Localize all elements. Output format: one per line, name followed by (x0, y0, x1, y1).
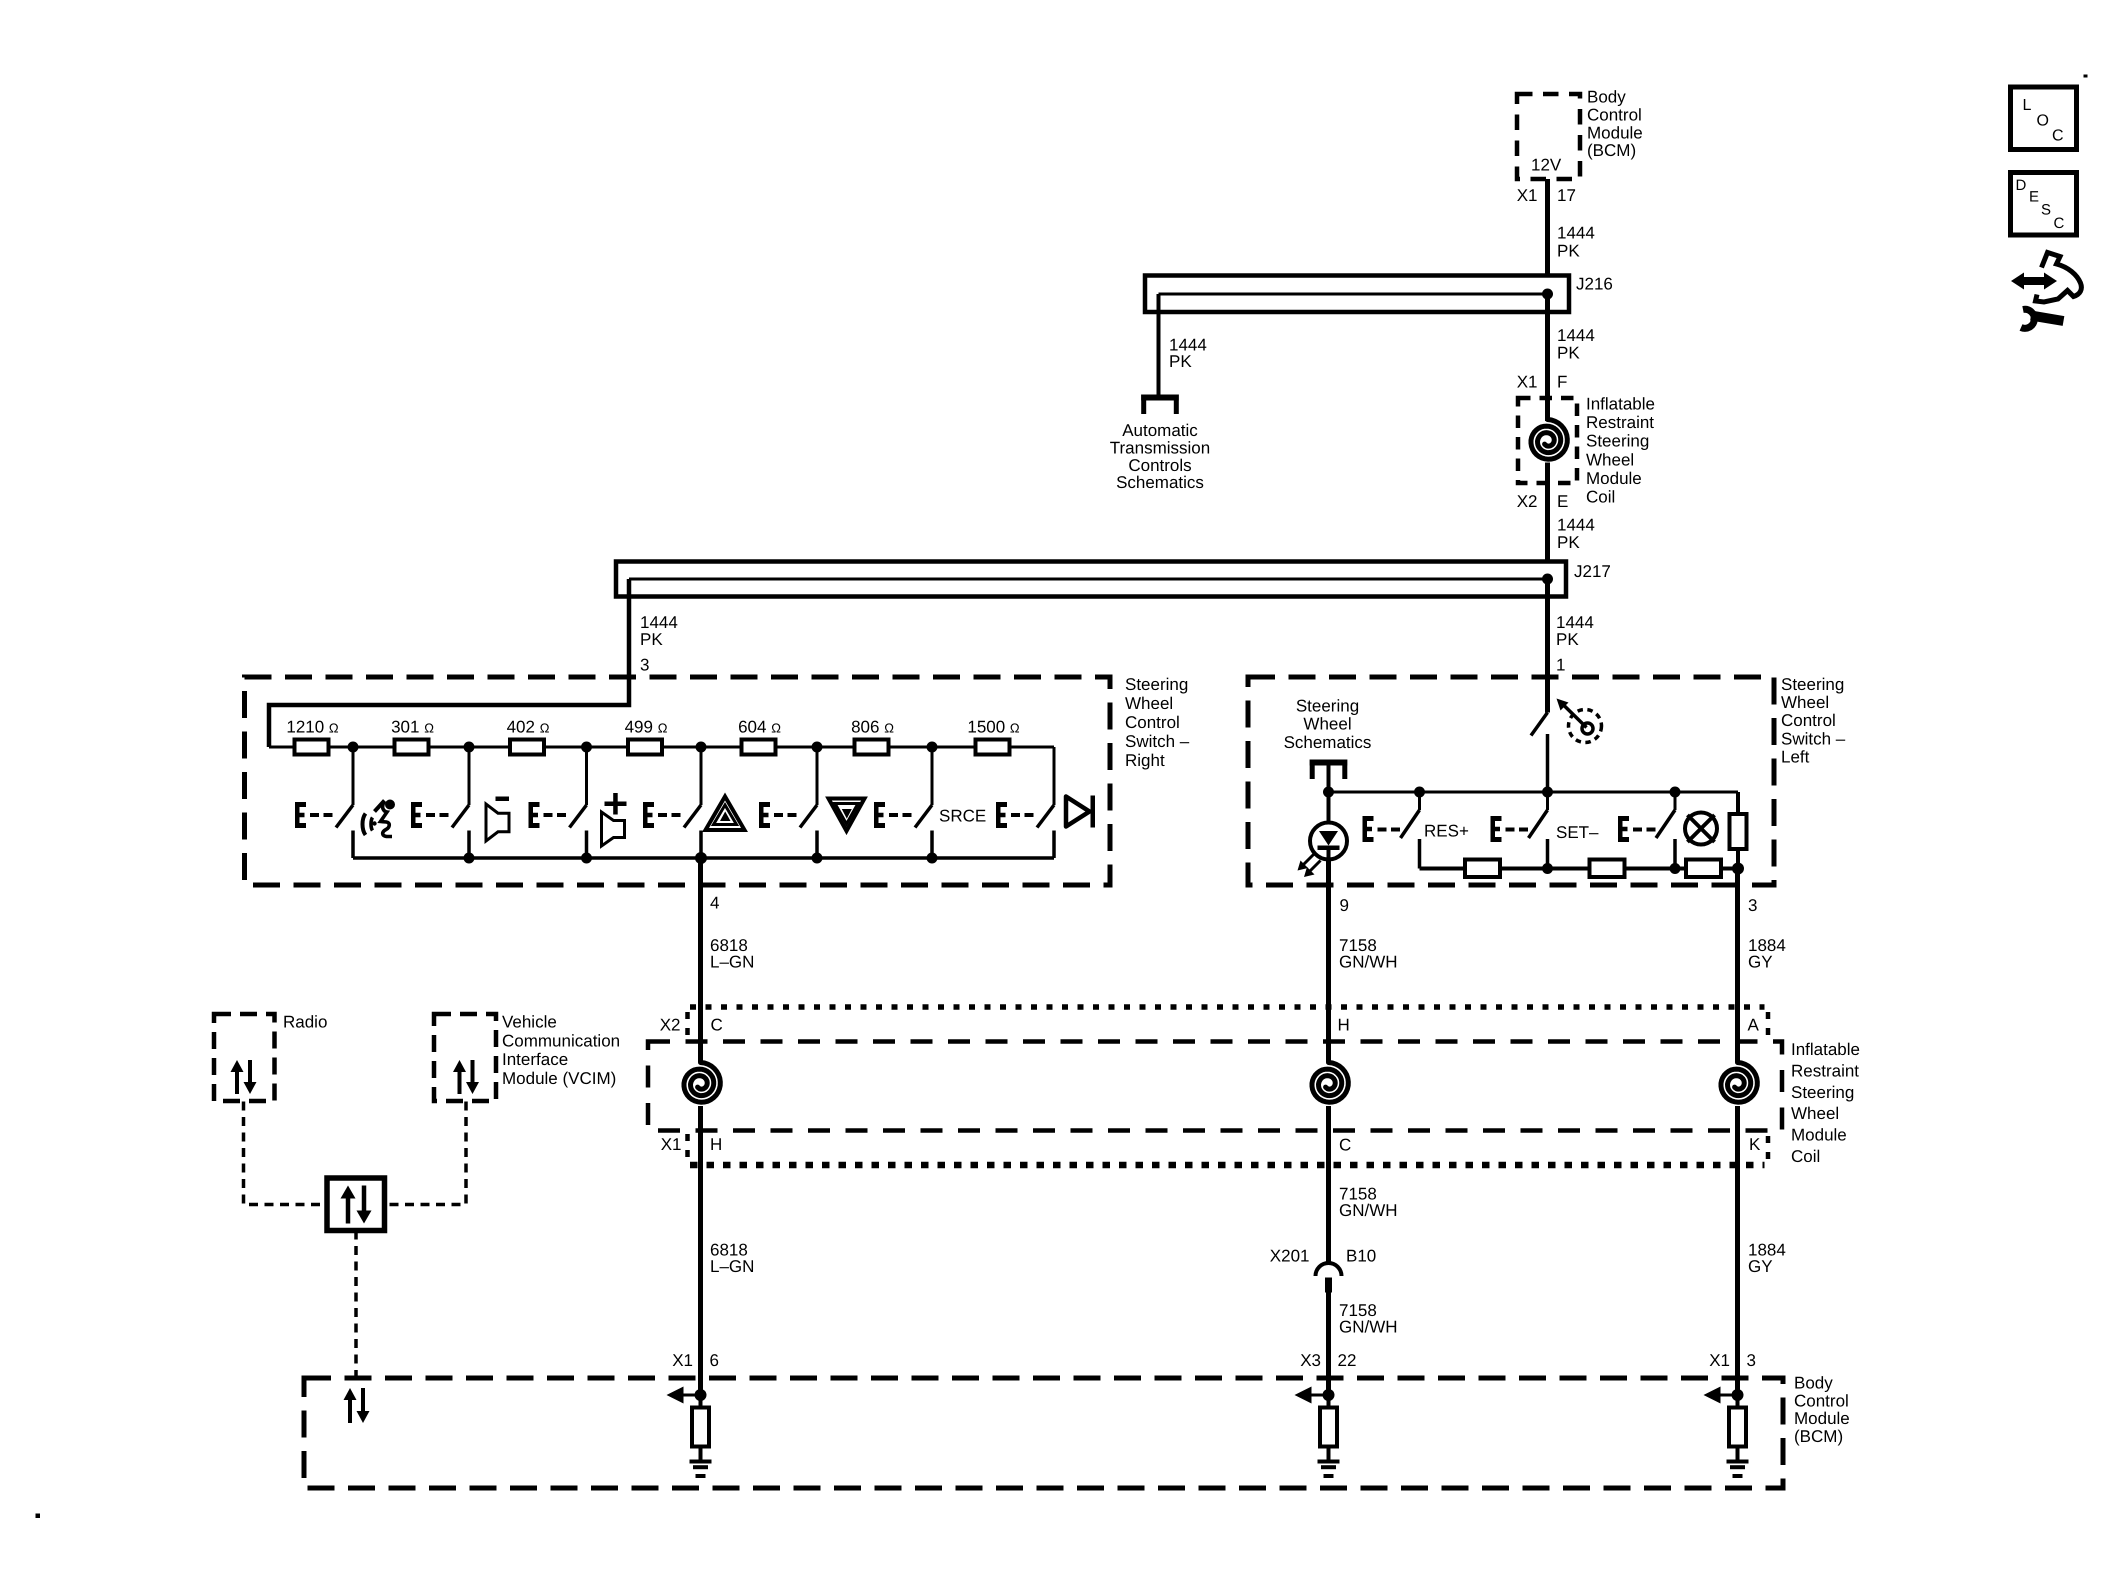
pin X2 C (660, 1016, 723, 1035)
icon: wrench (2021, 309, 2064, 328)
svg-text:402 Ω: 402 Ω (507, 718, 550, 737)
pin X1 3 (1709, 1351, 1756, 1370)
label: J216 (1576, 275, 1613, 294)
value label: 604 ohm (738, 718, 781, 737)
module box: Body Control Module (BCM) bottom (304, 1378, 1783, 1488)
svg-text:Wheel: Wheel (1791, 1104, 1839, 1123)
svg-text:Coil: Coil (1791, 1147, 1820, 1166)
junction (696, 742, 707, 753)
off-page connector: to Automatic Transmission Controls Schematics (1141, 395, 1179, 415)
pin X3 22 (1300, 1351, 1356, 1370)
resistor 604 ohm (742, 740, 776, 755)
svg-text:1: 1 (1556, 656, 1565, 675)
junction (1542, 787, 1553, 798)
svg-text:Steering: Steering (1791, 1083, 1854, 1102)
svg-text:Transmission: Transmission (1110, 438, 1210, 457)
svg-text:Vehicle: Vehicle (502, 1013, 557, 1032)
switch: voice recognition (295, 747, 353, 858)
svg-text:X3: X3 (1300, 1351, 1321, 1370)
coil winding (middle) (1312, 1063, 1348, 1103)
svg-text:3: 3 (1747, 1351, 1756, 1370)
wire 1444 PK: J216 to J216 pass-through (lower) (1545, 294, 1550, 398)
svg-text:Right: Right (1125, 751, 1165, 770)
label: Body Control Module (BCM) bottom (1794, 1374, 1850, 1446)
LED arrows (1298, 854, 1321, 877)
label: Steering Wheel Control Switch - Left (1781, 675, 1846, 766)
svg-text:SRCE: SRCE (939, 807, 986, 826)
wire: serial data Radio to gateway (dashed) (244, 1102, 328, 1205)
wire: schematics tap to rail (1327, 766, 1331, 793)
svg-text:1210 Ω: 1210 Ω (286, 718, 339, 737)
coil winding (left) (684, 1063, 720, 1103)
svg-text:12V: 12V (1531, 156, 1562, 175)
input arrow (1704, 1387, 1738, 1404)
wire to resistor (1736, 1395, 1740, 1408)
legend box: LOC (2011, 87, 2077, 150)
svg-text:X1: X1 (1517, 186, 1538, 205)
wire 1444 PK: coil X2-E to splice J217 (1545, 483, 1550, 579)
svg-text:Switch –: Switch – (1781, 729, 1846, 748)
svg-text:PK: PK (1556, 630, 1579, 649)
svg-text:Controls: Controls (1128, 456, 1191, 475)
svg-text:Control: Control (1125, 713, 1180, 732)
lamp: cruise indicator (1685, 813, 1717, 845)
wire to resistor (1327, 1395, 1331, 1408)
svg-text:E: E (2029, 189, 2039, 206)
wire to resistor (699, 1395, 703, 1408)
value label: circuit 1444 PK (below coil) (1557, 516, 1595, 553)
svg-text:1444: 1444 (1557, 516, 1595, 535)
wire 1884 GY: SWC-Left pin 3 to coil A (1735, 869, 1740, 1063)
svg-text:X1: X1 (661, 1135, 682, 1154)
wire 1444 PK: J217 to SWC-Right pin 3 (627, 579, 632, 677)
junction (927, 853, 938, 864)
svg-text:GN/WH: GN/WH (1339, 1318, 1398, 1337)
svg-text:Body: Body (1794, 1374, 1833, 1393)
svg-text:H: H (710, 1135, 722, 1154)
svg-text:Wheel: Wheel (1125, 694, 1173, 713)
resistor 1500 ohm (976, 740, 1010, 755)
icon for switch: hazard / mute (706, 797, 745, 831)
svg-text:GY: GY (1748, 1257, 1773, 1276)
svg-text:Module (VCIM): Module (VCIM) (502, 1069, 616, 1088)
svg-text:X2: X2 (660, 1016, 681, 1035)
junction (1732, 1389, 1744, 1401)
switch: seek down (759, 747, 817, 858)
svg-text:Coil: Coil (1586, 488, 1615, 507)
wire: internal feed (pin 3 to resistor ladder) (269, 677, 629, 747)
svg-text:Steering: Steering (1781, 675, 1844, 694)
resistor (BCM input) (1320, 1408, 1337, 1447)
junction (1542, 863, 1553, 874)
value label: 499 ohm (625, 718, 668, 737)
serial data symbol (Radio) (231, 1060, 257, 1094)
switch: hazard / mute (643, 747, 701, 858)
label: Inflatable Restraint Steering Wheel Module Coil (band) (1791, 1040, 1860, 1166)
svg-text:J217: J217 (1574, 562, 1611, 581)
svg-text:(BCM): (BCM) (1794, 1427, 1843, 1446)
svg-text:S: S (2041, 202, 2051, 219)
input arrow (1295, 1387, 1329, 1404)
svg-text:Inflatable: Inflatable (1586, 395, 1655, 414)
resistor 301 ohm (395, 740, 429, 755)
svg-text:Control: Control (1781, 711, 1836, 730)
junction (581, 853, 592, 864)
junction (1670, 787, 1681, 798)
icon for switch: volume down (486, 797, 509, 842)
svg-text:B10: B10 (1346, 1247, 1376, 1266)
connector row X1/bottom (dotted) (690, 1162, 1765, 1169)
value label: 402 ohm (507, 718, 550, 737)
wire: right branch to resistor (1736, 792, 1740, 814)
switch: cruise SET- (1491, 792, 1548, 869)
junction (812, 742, 823, 753)
inline connector X201 pin B10 (1316, 1263, 1342, 1293)
svg-text:Wheel: Wheel (1586, 450, 1634, 469)
svg-text:J216: J216 (1576, 275, 1613, 294)
junction (927, 742, 938, 753)
svg-text:PK: PK (1557, 242, 1580, 261)
value label: circuit 7158 GN/WH (above X201) (1339, 1185, 1398, 1221)
label: Automatic Transmission Controls Schematics (1110, 421, 1210, 492)
wire: resistor to bottom rail (1736, 849, 1740, 869)
svg-text:F: F (1557, 373, 1567, 392)
value label: 301 ohm (391, 718, 434, 737)
component box: Inflatable Restraint Steering Wheel Module Coil (band) (648, 1042, 1782, 1131)
junction (1323, 1389, 1335, 1401)
wire: serial data VCIM to gateway (dashed) (385, 1102, 467, 1205)
svg-text:O: O (2037, 113, 2049, 130)
svg-text:Inflatable: Inflatable (1791, 1040, 1860, 1059)
svg-text:Module: Module (1586, 469, 1642, 488)
icon: service information arrows (2011, 273, 2057, 290)
resistor 1210 ohm (295, 740, 329, 755)
ground (1318, 1460, 1340, 1479)
resistor (RES+ to SET-) (1465, 860, 1500, 878)
wire 6818 L-GN: coil X1-H to BCM X1-6 (698, 1106, 703, 1395)
svg-text:C: C (711, 1016, 723, 1035)
svg-text:22: 22 (1338, 1351, 1357, 1370)
svg-text:Switch –: Switch – (1125, 732, 1190, 751)
resistor (BCM input) (1729, 1408, 1746, 1447)
icon for switch: source (SRCE) (939, 807, 986, 826)
svg-text:PK: PK (640, 630, 663, 649)
svg-text:X201: X201 (1270, 1247, 1310, 1266)
svg-text:Interface: Interface (502, 1050, 568, 1069)
label: Vehicle Communication Interface Module (VCIM) (502, 1013, 620, 1088)
svg-text:3: 3 (1748, 896, 1757, 915)
label: Radio (283, 1013, 327, 1032)
wire: switch common rail (right box) (353, 856, 1054, 860)
off-page connector: to Steering Wheel Schematics (1310, 760, 1348, 780)
svg-text:X1: X1 (1517, 373, 1538, 392)
svg-text:K: K (1749, 1135, 1761, 1154)
coil winding (clockspring) (1531, 420, 1567, 460)
pin X1 F (1517, 373, 1568, 392)
svg-text:GN/WH: GN/WH (1339, 1201, 1398, 1220)
svg-text:Radio: Radio (283, 1013, 327, 1032)
switch: cruise RES+ (1363, 792, 1420, 869)
junction (812, 853, 823, 864)
wire 7158 GN/WH: X201 to BCM X3-22 (1326, 1293, 1331, 1396)
wire 1444 PK: J217 to SWC-Left pin 1 (1545, 579, 1550, 713)
svg-text:9: 9 (1340, 896, 1349, 915)
wire: internal rail (left box) (1329, 791, 1739, 794)
ground (1727, 1460, 1749, 1479)
resistor (SET- to cancel) (1590, 860, 1625, 878)
svg-text:L: L (2023, 97, 2032, 114)
wire: J216 internal drop to left branch (1157, 294, 1161, 395)
svg-text:Restraint: Restraint (1791, 1061, 1859, 1080)
svg-text:GN/WH: GN/WH (1339, 953, 1398, 972)
value label: 806 ohm (851, 718, 894, 737)
wire to ground (1327, 1447, 1331, 1461)
connector row X2/top (dotted) (690, 1004, 1765, 1010)
value label: circuit 1444 PK / pin 3 (640, 613, 678, 675)
svg-text:604 Ω: 604 Ω (738, 718, 781, 737)
pin 3 (1748, 896, 1757, 915)
pin C (middle bottom) (1339, 1136, 1351, 1155)
pin 9 (1340, 896, 1349, 915)
svg-text:PK: PK (1557, 344, 1580, 363)
svg-text:L–GN: L–GN (710, 953, 754, 972)
svg-text:3: 3 (640, 656, 649, 675)
icon for switch: volume up (602, 793, 627, 846)
junction (581, 742, 592, 753)
svg-text:Control: Control (1794, 1391, 1849, 1410)
switch: next track (996, 747, 1054, 858)
resistor (cancel to output) (1686, 860, 1721, 878)
connector stub right bottom (1766, 1136, 1771, 1160)
resistor 402 ohm (510, 740, 544, 755)
value label: circuit 1444 PK (right, above coil) (1557, 326, 1595, 363)
icon for switch: voice recognition (363, 800, 396, 837)
svg-text:PK: PK (1557, 533, 1580, 552)
svg-text:499 Ω: 499 Ω (625, 718, 668, 737)
junction (348, 742, 359, 753)
wire 1884 GY: coil K to BCM X1-3 (1735, 1106, 1740, 1395)
svg-text:(BCM): (BCM) (1587, 141, 1636, 160)
icon for switch: next track (1066, 796, 1095, 828)
module box: Vehicle Communication Interface Module (VCIM) (434, 1014, 496, 1101)
label: Body Control Module (BCM) (1587, 88, 1643, 161)
label: 12V (1531, 156, 1562, 175)
splice pack J216 (1145, 276, 1569, 313)
junction: pin 3 tap (1732, 863, 1744, 875)
pin X1 6 (672, 1351, 719, 1370)
pin X2 E (1517, 492, 1569, 511)
svg-text:Restraint: Restraint (1586, 413, 1654, 432)
svg-text:Wheel: Wheel (1303, 715, 1351, 734)
module box: Radio (214, 1014, 275, 1101)
icon: component outline (2036, 253, 2082, 303)
resistor (BCM input) (692, 1408, 709, 1447)
label: Steering Wheel Control Switch - Right (1125, 675, 1190, 770)
resistor 806 ohm (855, 740, 889, 755)
svg-text:Steering: Steering (1296, 697, 1359, 716)
junction (464, 853, 475, 864)
resistor 499 ohm (628, 740, 662, 755)
label: RES+ (1424, 822, 1469, 841)
value label: circuit 7158 GN/WH (below X201) (1339, 1301, 1398, 1337)
connector stub right top (1766, 1012, 1771, 1036)
junction: pin 4 tap (695, 852, 707, 864)
svg-text:6: 6 (710, 1351, 719, 1370)
pin X1 H (661, 1135, 723, 1154)
wire to ground (1736, 1447, 1740, 1461)
svg-text:C: C (1339, 1136, 1351, 1155)
junction (1670, 863, 1681, 874)
coil winding (right) (1721, 1063, 1757, 1103)
switch: volume up (529, 747, 587, 858)
switch: cruise control on/off (1531, 713, 1548, 793)
value label: circuit 1884 GY (lower) (1748, 1241, 1786, 1277)
splice pack J217 (616, 562, 1566, 597)
svg-text:Schematics: Schematics (1284, 733, 1372, 752)
pin 4 (710, 894, 719, 913)
value label: circuit 6818 L-GN (710, 936, 754, 972)
connector stub left bottom (685, 1134, 690, 1158)
svg-text:1444: 1444 (1557, 326, 1595, 345)
value label: circuit 7158 GN/WH (1339, 936, 1398, 972)
svg-text:H: H (1338, 1016, 1350, 1035)
svg-text:Body: Body (1587, 88, 1626, 107)
junction (1414, 787, 1425, 798)
icon: cruise control speedometer (1557, 699, 1602, 743)
wire 7158 GN/WH: coil C to connector X201 (1326, 1106, 1331, 1263)
module box: Steering Wheel Control Switch - Right (245, 677, 1111, 885)
svg-text:X1: X1 (672, 1351, 693, 1370)
svg-text:Module: Module (1794, 1409, 1850, 1428)
svg-text:PK: PK (1169, 352, 1192, 371)
junction (1323, 787, 1334, 798)
serial data symbol (gateway) (341, 1186, 372, 1224)
svg-text:806 Ω: 806 Ω (851, 718, 894, 737)
value label: 1210 ohm (286, 718, 339, 737)
svg-text:Module: Module (1587, 123, 1643, 142)
junction (464, 742, 475, 753)
junction (695, 1389, 707, 1401)
svg-text:Control: Control (1587, 105, 1642, 124)
svg-text:4: 4 (710, 894, 719, 913)
svg-text:C: C (2054, 215, 2065, 232)
wire out of coil (1545, 463, 1550, 484)
svg-text:Communication: Communication (502, 1031, 620, 1050)
label: J217 (1574, 562, 1611, 581)
resistor (right branch) (1730, 814, 1747, 849)
svg-text:1500 Ω: 1500 Ω (967, 718, 1020, 737)
svg-text:SET–: SET– (1556, 823, 1599, 842)
pin X1 17 (1517, 186, 1576, 205)
value label: circuit 1444 PK (1557, 224, 1595, 261)
connector stub left top (685, 1012, 690, 1036)
svg-text:Module: Module (1791, 1126, 1847, 1145)
legend box: DESC (2011, 173, 2077, 236)
svg-text:Wheel: Wheel (1781, 693, 1829, 712)
component box: Inflatable Restraint Steering Wheel Module Coil (upper) (1518, 398, 1577, 483)
svg-text:A: A (1748, 1016, 1760, 1035)
svg-text:C: C (2052, 128, 2064, 145)
LED: backlight indicator (1310, 792, 1347, 860)
pin A (right top) (1748, 1016, 1760, 1035)
svg-text:Automatic: Automatic (1122, 421, 1198, 440)
pin K (right bottom) (1749, 1135, 1761, 1154)
ground (690, 1460, 712, 1479)
pin H (middle top) (1338, 1016, 1350, 1035)
svg-text:D: D (2016, 177, 2027, 194)
svg-text:RES+: RES+ (1424, 822, 1469, 841)
wire 1444 PK: BCM 12V output to splice J216 (1545, 179, 1550, 294)
switch: volume down (411, 747, 469, 858)
svg-text:Steering: Steering (1586, 432, 1649, 451)
wire 6818 L-GN: SWC-Right pin 4 to coil X2-C (698, 858, 703, 1062)
mark: bottom-left dot (36, 1514, 41, 1519)
svg-text:17: 17 (1557, 186, 1576, 205)
mark: top-right dot (2084, 75, 2088, 78)
svg-text:1444: 1444 (1557, 224, 1595, 243)
serial data symbol (VCIM) (453, 1060, 479, 1094)
wire 7158 GN/WH: SWC-Left pin 9 to coil H (1326, 860, 1331, 1063)
module box: Body Control Module (BCM) top (1517, 94, 1580, 179)
svg-text:Schematics: Schematics (1116, 473, 1204, 492)
svg-text:301 Ω: 301 Ω (391, 718, 434, 737)
wire: serial data gateway to BCM (dashed) (354, 1231, 358, 1379)
module box: Steering Wheel Control Switch - Left (1248, 677, 1774, 885)
svg-text:GY: GY (1748, 953, 1773, 972)
svg-text:X1: X1 (1709, 1351, 1730, 1370)
pin label: X201 B10 (1270, 1247, 1376, 1266)
svg-text:E: E (1557, 492, 1568, 511)
label: Steering Wheel Schematics (1284, 697, 1372, 752)
junction at J216 (1542, 289, 1553, 300)
value label: circuit 6818 L-GN (lower) (710, 1241, 754, 1277)
input arrow (667, 1387, 701, 1404)
serial data symbol (BCM) (344, 1388, 370, 1423)
switch: source (SRCE) (874, 747, 932, 858)
value label: circuit 1884 GY (1748, 936, 1786, 972)
wire into coil (1545, 398, 1550, 421)
value label: circuit 1444 PK / pin 1 (1556, 613, 1594, 675)
junction at J217 (1542, 574, 1553, 585)
icon for switch: seek down (829, 799, 865, 832)
label: SET- (1556, 823, 1599, 842)
svg-text:X2: X2 (1517, 492, 1538, 511)
label: Inflatable Restraint Steering Wheel Module Coil (1586, 395, 1655, 507)
wire to ground (699, 1447, 703, 1461)
switch: cruise cancel (1618, 792, 1675, 869)
wire: resistor ladder rail (269, 746, 1054, 749)
wire: bottom rail (left box) (1420, 867, 1739, 871)
value label: circuit 1444 PK (left branch) (1169, 336, 1207, 372)
value label: 1500 ohm (967, 718, 1020, 737)
svg-text:Steering: Steering (1125, 675, 1188, 694)
svg-text:Left: Left (1781, 747, 1810, 766)
svg-text:L–GN: L–GN (710, 1257, 754, 1276)
gateway node (serial data) (327, 1178, 385, 1231)
